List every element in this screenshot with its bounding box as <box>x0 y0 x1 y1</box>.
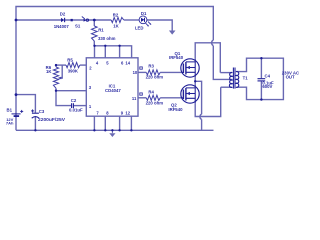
junction dot R1 top <box>93 19 96 22</box>
wire bottom ground rail <box>16 129 214 131</box>
junction dot rail pin9 <box>118 129 120 131</box>
wire pin2 to R5 <box>80 64 87 66</box>
wire pin12 stub <box>130 116 132 130</box>
svg-text:C4: C4 <box>265 73 271 78</box>
wire secondary top lead to output loop <box>237 58 284 99</box>
junction dot sources <box>194 80 196 82</box>
junction dot rail pin8 <box>104 129 106 131</box>
svg-text:OUT: OUT <box>286 74 295 79</box>
wire hook ground wire over drain-bottom wire <box>200 114 202 119</box>
wire pot bottom to node A <box>55 88 57 91</box>
svg-text:C3: C3 <box>39 109 45 114</box>
wire pin8 stub <box>104 116 106 130</box>
junction dot 12V row at left rail <box>15 19 18 22</box>
svg-text:C2: C2 <box>71 98 77 103</box>
transistor Q1 IRF540 <box>181 59 199 77</box>
junction dot VCC pin6 <box>118 45 120 47</box>
svg-text:R5: R5 <box>67 57 73 62</box>
svg-text:1K: 1K <box>46 69 52 74</box>
svg-text:IRF540: IRF540 <box>168 107 183 112</box>
C3 plus sign <box>31 109 34 112</box>
svg-text:LED: LED <box>135 25 144 30</box>
capacitor C3 2200uF <box>32 113 39 118</box>
transformer T1 core <box>233 68 235 89</box>
wire pot top lead <box>55 65 57 67</box>
wire 12V row from battery to D2 <box>16 19 61 21</box>
capacitor C4 bottom lead <box>260 81 262 99</box>
svg-text:220 ohm: 220 ohm <box>146 100 164 105</box>
svg-text:2200uF/25V: 2200uF/25V <box>38 117 65 122</box>
junction dot C4 top <box>260 57 262 59</box>
wire top rail and left rail <box>16 7 213 131</box>
wire pin5 stub <box>104 46 106 58</box>
svg-text:T1: T1 <box>243 76 249 81</box>
svg-text:12: 12 <box>125 110 130 115</box>
diode D2 1N4007 <box>61 18 65 22</box>
resistor R2 1K <box>111 17 124 22</box>
wire pin6 stub <box>119 46 121 58</box>
svg-text:220 ohm: 220 ohm <box>146 74 164 79</box>
wire C3 branch from left rail <box>16 95 35 113</box>
switch S1 blade arrow <box>84 19 86 22</box>
switch S1 contact square <box>71 19 73 21</box>
resistor R1 330 ohm <box>92 26 98 41</box>
wire hook 12V feed over drain wire <box>212 40 214 45</box>
junction dot rail pin12 <box>130 129 132 131</box>
potentiometer R6 body <box>53 67 58 88</box>
transformer T1 secondary winding <box>236 71 239 87</box>
svg-text:D1: D1 <box>141 11 147 16</box>
junction dot C3 bottom on rail <box>34 129 36 131</box>
wire R3 to Q1 gate <box>160 71 181 73</box>
junction dot rail ground arrow <box>111 129 113 131</box>
wire pin10 to R3 <box>138 71 146 73</box>
junction dot node A <box>55 90 57 92</box>
junction dot rail pin7 <box>93 129 95 131</box>
wire Q1 source down to sources node <box>194 77 196 81</box>
svg-text:CD4047: CD4047 <box>105 88 121 93</box>
svg-text:0.01uF: 0.01uF <box>69 107 83 112</box>
svg-text:330 ohm: 330 ohm <box>98 36 116 41</box>
wire D2 to S1 to R1 junction to R2 <box>65 19 111 21</box>
junction dot VCC pin5 <box>104 45 106 47</box>
wire R1 top lead <box>93 20 95 26</box>
svg-text:1N4007: 1N4007 <box>54 24 70 29</box>
wire Q2 bottom to transformer bottom lead <box>195 87 221 116</box>
wire 12V feed down to center tap <box>213 46 232 80</box>
net label square on pin10 wire <box>140 67 143 69</box>
transistor Q2 IRF540 <box>181 85 199 103</box>
svg-text:11: 11 <box>132 96 137 101</box>
svg-text:R4: R4 <box>148 89 154 94</box>
wire R4 to Q2 gate <box>160 97 181 99</box>
wire R1 bottom lead <box>93 41 95 46</box>
svg-text:S1: S1 <box>75 23 81 28</box>
svg-text:7Ah: 7Ah <box>6 120 14 125</box>
junction dot C3 branch <box>15 93 18 96</box>
net label square on pin11 wire <box>140 93 143 95</box>
svg-text:10: 10 <box>133 70 138 75</box>
switch S1 lever <box>82 17 85 19</box>
battery B1 <box>12 114 21 116</box>
wire transformer primary bottom lead <box>221 86 232 88</box>
wire ground wire to bottom rail <box>201 119 203 130</box>
wire pin3 row <box>56 90 86 92</box>
wire pin7 stub <box>93 116 95 130</box>
wire R5 to pot top node <box>56 64 66 66</box>
junction dot C4 bottom <box>260 98 262 100</box>
wire VCC rail above IC <box>94 46 131 58</box>
junction dot pot top <box>55 64 57 66</box>
svg-text:R2: R2 <box>113 12 119 17</box>
switch S1 right contact circle <box>86 19 88 21</box>
wire C2 to pin1 <box>74 105 87 107</box>
arrow down after LED <box>169 31 176 35</box>
wire node A down to C2 row <box>56 91 71 106</box>
wire LED to down arrow <box>147 20 172 31</box>
wire Q2 top to sources node <box>194 81 196 85</box>
wire pot wiper loop <box>59 65 63 78</box>
wire sources node right then down <box>195 81 201 114</box>
wire C3 bottom lead <box>34 117 36 131</box>
svg-text:D2: D2 <box>60 11 66 16</box>
svg-text:B1: B1 <box>7 107 13 112</box>
transformer T1 primary winding <box>229 72 232 87</box>
capacitor C4 plates <box>258 79 266 81</box>
wire R2 to LED <box>124 19 139 21</box>
ground arrow under IC <box>109 130 115 137</box>
svg-text:14: 14 <box>125 60 130 65</box>
wire Q1 drain up and right to transformer top <box>195 43 220 73</box>
wire transformer primary top lead <box>220 72 232 74</box>
capacitor C2 0.01uF <box>72 103 74 108</box>
wire pin9 stub <box>119 116 121 130</box>
resistor R5 390K <box>66 63 80 68</box>
IC1 CD4047 box <box>86 58 138 116</box>
junction dot VCC pin4 <box>93 45 95 47</box>
svg-text:R1: R1 <box>98 28 104 33</box>
svg-text:600V: 600V <box>262 84 272 89</box>
LED D1 <box>139 16 151 27</box>
svg-text:390K: 390K <box>68 68 79 73</box>
resistor R3 220 ohm <box>146 70 160 75</box>
capacitor C4 top lead <box>260 58 262 78</box>
wire pin11 to R4 <box>138 97 146 99</box>
battery plus sign <box>20 110 23 113</box>
svg-text:R3: R3 <box>148 63 154 68</box>
resistor R4 220 ohm <box>146 95 160 100</box>
potentiometer R6 wiper arrow <box>58 77 62 80</box>
svg-text:1K: 1K <box>113 23 119 28</box>
svg-text:IRF540: IRF540 <box>169 55 184 60</box>
wire pin4 stub <box>94 46 96 58</box>
